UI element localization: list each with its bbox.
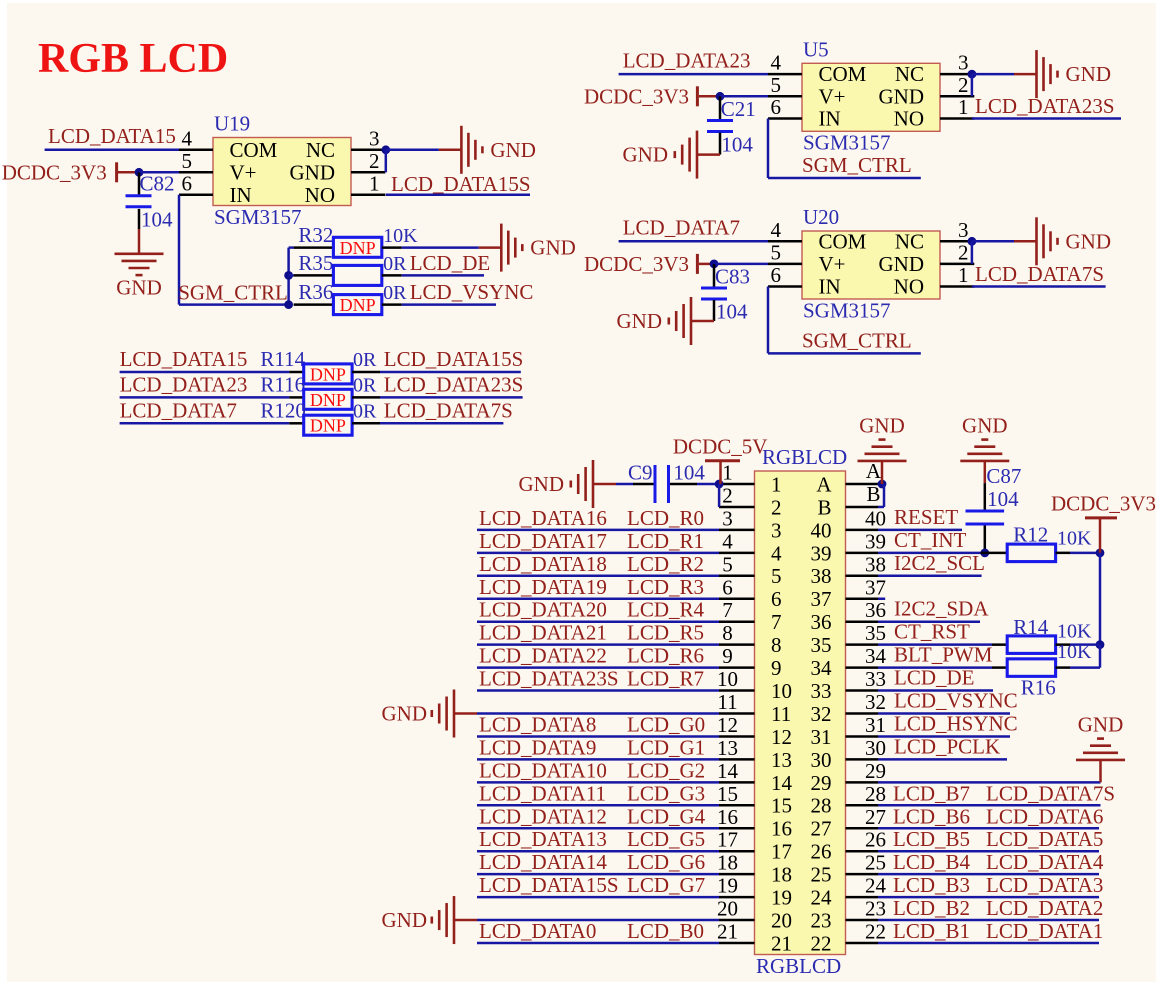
- svg-text:V+: V+: [819, 84, 846, 108]
- node junction C9/DCDC_5V/pin1: [715, 480, 724, 489]
- svg-text:DNP: DNP: [310, 416, 346, 436]
- svg-text:LCD_DATA15S: LCD_DATA15S: [479, 873, 619, 897]
- svg-text:V+: V+: [230, 160, 257, 184]
- svg-text:1: 1: [722, 461, 733, 485]
- wire U19 pin1 LCD_DATA15S: [386, 194, 530, 197]
- node junction DCDC_3V3/C21: [716, 92, 725, 101]
- wire pin 33 net: [878, 689, 993, 692]
- wire SGM_CTRL (U5): [768, 177, 921, 180]
- svg-text:22: 22: [811, 931, 832, 955]
- svg-text:6: 6: [771, 263, 782, 287]
- svg-text:LCD_DATA7S: LCD_DATA7S: [384, 398, 513, 422]
- node junction R14/bus: [1096, 640, 1105, 649]
- svg-text:13: 13: [771, 748, 792, 772]
- op-amp U19 (SGM3157 analog switch body): [213, 138, 351, 206]
- svg-text:10: 10: [717, 667, 738, 691]
- wire R36 right: [382, 303, 402, 306]
- svg-text:35: 35: [865, 621, 886, 645]
- svg-text:V+: V+: [819, 252, 846, 276]
- svg-text:GND: GND: [530, 236, 576, 260]
- svg-text:LCD_DATA17: LCD_DATA17: [479, 529, 607, 553]
- svg-text:40: 40: [865, 506, 886, 530]
- connector pin 20 stub (left): [719, 919, 755, 922]
- svg-text:A: A: [866, 459, 882, 483]
- wire LCD_DATA9 to pin 13: [477, 758, 719, 761]
- wire LCD_DATA22 to pin 9: [477, 666, 719, 669]
- svg-text:12: 12: [771, 725, 792, 749]
- U5 pin 3 stub: [940, 73, 974, 76]
- svg-text:LCD_DATA2: LCD_DATA2: [986, 896, 1103, 920]
- svg-text:6: 6: [771, 587, 782, 611]
- svg-text:LCD_G2: LCD_G2: [627, 758, 705, 782]
- svg-text:11: 11: [771, 702, 791, 726]
- svg-text:37: 37: [865, 575, 886, 599]
- svg-text:R36: R36: [298, 280, 333, 304]
- svg-text:CT_INT: CT_INT: [894, 528, 966, 552]
- U19 pin 5 stub: [179, 171, 213, 174]
- wire LCD_DATA20 to pin 7: [477, 620, 719, 623]
- svg-text:C21: C21: [721, 97, 756, 121]
- wire U20 pin2 up: [971, 241, 974, 264]
- connector pin 35 stub (right): [846, 643, 879, 646]
- connector pin 24 stub (right): [846, 896, 879, 899]
- connector pin 31 stub (right): [846, 735, 879, 738]
- svg-text:LCD_DATA4: LCD_DATA4: [986, 850, 1104, 874]
- svg-text:1: 1: [958, 95, 969, 119]
- svg-text:COM: COM: [819, 62, 867, 86]
- svg-text:26: 26: [811, 840, 832, 864]
- wire U19 pin3 node to GND: [386, 149, 439, 152]
- svg-text:3: 3: [722, 506, 733, 530]
- svg-text:LCD_B0: LCD_B0: [627, 919, 704, 943]
- svg-text:LCD_DATA15: LCD_DATA15: [48, 124, 176, 148]
- wire GND stem (A/B): [881, 461, 884, 484]
- svg-text:10K: 10K: [1057, 528, 1092, 550]
- wire 3V3 bus down: [1099, 553, 1102, 645]
- U19 pin 1 stub: [351, 194, 385, 197]
- svg-text:LCD_DATA14: LCD_DATA14: [479, 850, 607, 874]
- connector pin 25 stub (right): [846, 873, 879, 876]
- wire LCD_DATA15S right: [352, 371, 380, 374]
- svg-text:34: 34: [811, 656, 833, 680]
- U19 pin 3 stub: [351, 149, 385, 152]
- capacitor C87 plates: [966, 510, 1005, 513]
- svg-text:LCD_DATA23S: LCD_DATA23S: [384, 372, 524, 396]
- svg-text:10: 10: [771, 679, 792, 703]
- wire pin 23 LCD_DATA2: [878, 919, 1099, 922]
- U5 pin 6 stub: [768, 117, 802, 120]
- wire GND stem (pin 29): [1099, 760, 1102, 782]
- svg-text:10K: 10K: [383, 225, 418, 247]
- svg-text:39: 39: [865, 529, 886, 553]
- svg-text:DCDC_3V3: DCDC_3V3: [2, 160, 107, 184]
- svg-text:28: 28: [865, 782, 886, 806]
- connector pin 27 stub (right): [846, 827, 879, 830]
- wire R32 right: [382, 246, 402, 249]
- capacitor C21 plates: [707, 119, 733, 122]
- svg-text:LCD_DATA7S: LCD_DATA7S: [975, 262, 1104, 286]
- svg-text:GND: GND: [879, 252, 925, 276]
- connector pin 29 stub (right): [846, 781, 879, 784]
- op-amp U5 (SGM3157 analog switch body): [802, 63, 940, 131]
- wire LCD_DATA14 to pin 18: [477, 873, 719, 876]
- wire BLT_PWM to R16: [878, 666, 992, 669]
- svg-text:U20: U20: [803, 205, 839, 229]
- wire C21 top: [719, 96, 722, 121]
- U5 pin 5 stub: [768, 95, 802, 98]
- power DCDC_5V: [705, 459, 740, 462]
- svg-text:5: 5: [771, 73, 782, 97]
- svg-text:10K: 10K: [1057, 621, 1092, 643]
- wire pin A to GND node: [878, 483, 883, 486]
- ground GND at U20 pin3: [1014, 240, 1037, 243]
- svg-text:3: 3: [958, 51, 969, 75]
- svg-text:DCDC_3V3: DCDC_3V3: [1051, 491, 1156, 515]
- U20 pin 5 stub: [768, 263, 802, 266]
- svg-text:LCD_DATA15: LCD_DATA15: [120, 347, 248, 371]
- svg-text:30: 30: [811, 748, 832, 772]
- svg-text:LCD_G5: LCD_G5: [627, 827, 705, 851]
- connector pin 32 stub (right): [846, 712, 879, 715]
- wire C21 bottom: [719, 133, 722, 155]
- svg-text:LCD_DATA11: LCD_DATA11: [479, 781, 606, 805]
- svg-text:LCD_B6: LCD_B6: [893, 804, 970, 828]
- svg-text:LCD_G7: LCD_G7: [627, 873, 705, 897]
- svg-text:B: B: [817, 495, 831, 519]
- wire LCD_DATA7S right: [352, 422, 380, 425]
- svg-text:LCD_DATA7: LCD_DATA7: [623, 216, 740, 240]
- svg-text:DCDC_3V3: DCDC_3V3: [584, 84, 689, 108]
- svg-text:0R: 0R: [353, 349, 377, 371]
- svg-text:LCD_R5: LCD_R5: [627, 621, 704, 645]
- wire pin 28 LCD_DATA7S: [878, 804, 1101, 807]
- U5 pin 2 stub: [940, 95, 974, 98]
- svg-text:NC: NC: [306, 138, 335, 162]
- svg-text:IN: IN: [819, 107, 841, 131]
- wire LCD_DATA21 to pin 8: [477, 643, 719, 646]
- wire LCD_DATA17 to pin 4: [477, 552, 719, 555]
- svg-text:LCD_DATA19: LCD_DATA19: [479, 575, 607, 599]
- svg-text:23: 23: [811, 908, 832, 932]
- ground GND above C87: [960, 460, 1009, 463]
- svg-text:LCD_R7: LCD_R7: [627, 667, 704, 691]
- svg-text:9: 9: [722, 644, 733, 668]
- svg-text:1: 1: [958, 263, 969, 287]
- wire pin 26 LCD_DATA5: [878, 850, 1099, 853]
- svg-text:38: 38: [865, 552, 886, 576]
- svg-text:0R: 0R: [383, 253, 407, 275]
- U19 pin 4 stub: [179, 149, 213, 152]
- svg-text:5: 5: [771, 564, 782, 588]
- svg-text:DNP: DNP: [310, 364, 346, 384]
- svg-text:4: 4: [182, 126, 193, 150]
- wire GND to pin 20: [477, 919, 719, 922]
- svg-text:LCD_DATA23S: LCD_DATA23S: [479, 667, 619, 691]
- svg-text:2: 2: [369, 149, 380, 173]
- svg-text:5: 5: [182, 149, 193, 173]
- resistor R12: [1007, 544, 1055, 562]
- wire pin 37 net: [878, 598, 885, 601]
- svg-text:1: 1: [369, 171, 380, 195]
- svg-text:33: 33: [811, 679, 832, 703]
- wire LCD_DATA0 to pin 21: [477, 942, 719, 945]
- connector pin 26 stub (right): [846, 850, 879, 853]
- svg-text:IN: IN: [819, 275, 841, 299]
- node junction R12/DCDC_3V3: [1096, 548, 1105, 557]
- ground GND at connector pin 11: [454, 712, 477, 715]
- power DCDC_3V3 bar (U5): [696, 86, 699, 106]
- U19 pin 2 stub: [351, 171, 385, 174]
- svg-text:CT_RST: CT_RST: [894, 620, 970, 644]
- svg-text:RGB LCD: RGB LCD: [38, 36, 228, 82]
- svg-text:R32: R32: [298, 223, 333, 247]
- svg-text:RESET: RESET: [894, 505, 958, 529]
- ground GND below C82: [115, 253, 164, 256]
- wire U19 pin2 up to pin3 node: [385, 150, 388, 173]
- svg-text:24: 24: [811, 886, 833, 910]
- resistor R14: [1007, 636, 1055, 654]
- svg-text:C9: C9: [628, 460, 653, 484]
- wire pin 24 LCD_DATA3: [878, 896, 1099, 899]
- svg-text:7: 7: [771, 610, 782, 634]
- resistor R32 (DNP): [333, 237, 381, 257]
- svg-text:LCD_DATA23: LCD_DATA23: [120, 372, 248, 396]
- wire junction to U19 pin5: [139, 171, 179, 174]
- svg-text:11: 11: [717, 690, 737, 714]
- svg-text:34: 34: [865, 644, 887, 668]
- svg-text:10K: 10K: [1057, 641, 1092, 663]
- svg-text:LCD_DATA7: LCD_DATA7: [120, 398, 237, 422]
- connector pin 16 stub (left): [719, 827, 755, 830]
- wire R16 right: [1056, 666, 1071, 669]
- svg-text:IN: IN: [230, 183, 252, 207]
- node junction U20 pin3/pin2: [968, 237, 977, 246]
- svg-text:DCDC_5V: DCDC_5V: [673, 434, 768, 458]
- svg-text:DCDC_3V3: DCDC_3V3: [584, 252, 689, 276]
- svg-text:12: 12: [717, 713, 738, 737]
- svg-text:16: 16: [771, 817, 792, 841]
- connector pin 6 stub (left): [719, 598, 755, 601]
- wire junction down to pin2: [718, 484, 721, 507]
- svg-text:C83: C83: [715, 265, 750, 289]
- connector pin A stub (right): [846, 483, 879, 486]
- wire C82 bottom: [138, 209, 141, 229]
- wire CT_INT to C87 node: [878, 552, 981, 555]
- node junction at R35: [284, 271, 293, 280]
- svg-text:GND: GND: [962, 413, 1008, 437]
- svg-text:21: 21: [717, 920, 738, 944]
- connector RGBLCD body: [755, 471, 846, 955]
- svg-text:LCD_DATA18: LCD_DATA18: [479, 552, 607, 576]
- svg-text:NO: NO: [894, 275, 924, 299]
- svg-text:I2C2_SCL: I2C2_SCL: [894, 551, 985, 575]
- svg-text:LCD_DATA9: LCD_DATA9: [479, 735, 596, 759]
- connector pin 10 stub (left): [719, 689, 755, 692]
- svg-text:LCD_DATA8: LCD_DATA8: [479, 712, 596, 736]
- wire pin B up to A node: [878, 506, 884, 509]
- svg-text:GND: GND: [116, 276, 162, 300]
- svg-text:14: 14: [717, 759, 739, 783]
- svg-text:LCD_VSYNC: LCD_VSYNC: [410, 280, 534, 304]
- svg-text:NC: NC: [895, 62, 924, 86]
- svg-text:LCD_G1: LCD_G1: [627, 735, 705, 759]
- power DCDC_3V3 (right): [1085, 516, 1117, 519]
- wire LCD_DATA19 to pin 6: [477, 598, 719, 601]
- svg-text:A: A: [816, 472, 832, 496]
- U20 pin 3 stub: [940, 240, 974, 243]
- svg-text:21: 21: [771, 931, 792, 955]
- svg-text:0R: 0R: [353, 400, 377, 422]
- svg-text:DNP: DNP: [310, 390, 346, 410]
- svg-text:36: 36: [811, 610, 832, 634]
- wire pin 22 LCD_DATA1: [878, 942, 1099, 945]
- svg-text:GND: GND: [1066, 229, 1112, 253]
- svg-text:13: 13: [717, 736, 738, 760]
- svg-text:LCD_DATA23S: LCD_DATA23S: [975, 94, 1115, 118]
- wire junction to U20 pin5: [714, 263, 768, 266]
- connector pin B stub (right): [846, 506, 879, 509]
- svg-text:LCD_DATA12: LCD_DATA12: [479, 804, 607, 828]
- svg-text:17: 17: [771, 840, 792, 864]
- svg-text:LCD_B1: LCD_B1: [893, 919, 970, 943]
- ground GND at connector pin 20: [454, 919, 477, 922]
- svg-text:104: 104: [141, 208, 173, 232]
- wire pin 36 net: [878, 620, 980, 623]
- svg-text:8: 8: [771, 633, 782, 657]
- svg-text:GND: GND: [623, 143, 669, 167]
- wire R12 right: [1056, 552, 1071, 555]
- connector pin 28 stub (right): [846, 804, 879, 807]
- svg-text:SGM3157: SGM3157: [803, 131, 891, 155]
- connector pin 21 stub (left): [719, 942, 755, 945]
- svg-text:104: 104: [721, 133, 753, 157]
- wire LCD_DATA7 left: [120, 422, 290, 425]
- connector pin 23 stub (right): [846, 919, 879, 922]
- wire C83 bottom: [713, 300, 716, 321]
- svg-text:LCD_G4: LCD_G4: [627, 804, 706, 828]
- svg-text:GND: GND: [859, 413, 905, 437]
- svg-text:LCD_HSYNC: LCD_HSYNC: [894, 711, 1018, 735]
- svg-text:GND: GND: [290, 160, 336, 184]
- wire C87 bottom: [984, 526, 987, 553]
- svg-text:4: 4: [771, 51, 782, 75]
- svg-text:40: 40: [811, 518, 832, 542]
- wire R35 left: [289, 274, 294, 277]
- connector pin 34 stub (right): [846, 666, 879, 669]
- svg-text:36: 36: [865, 598, 886, 622]
- wire R35 right: [382, 274, 402, 277]
- wire LCD_DATA23 left: [120, 396, 290, 399]
- svg-text:LCD_DATA15S: LCD_DATA15S: [391, 172, 531, 196]
- wire U5 IN down: [767, 119, 770, 179]
- wire LCD_DATA7 to U20 pin4: [619, 240, 768, 243]
- svg-text:32: 32: [811, 702, 832, 726]
- wire U5 pin1 LCD_DATA23S: [972, 117, 1121, 120]
- svg-text:LCD_R4: LCD_R4: [627, 598, 705, 622]
- svg-text:3: 3: [369, 126, 380, 150]
- svg-text:LCD_B2: LCD_B2: [893, 896, 970, 920]
- resistor R35: [333, 265, 381, 285]
- node junction at R36: [284, 300, 293, 309]
- U20 pin 1 stub: [940, 285, 974, 288]
- svg-text:LCD_DATA5: LCD_DATA5: [986, 827, 1103, 851]
- svg-text:LCD_R6: LCD_R6: [627, 644, 704, 668]
- svg-text:14: 14: [771, 771, 793, 795]
- svg-text:GND: GND: [519, 472, 565, 496]
- svg-text:16: 16: [717, 805, 738, 829]
- connector pin 7 stub (left): [719, 620, 755, 623]
- svg-text:38: 38: [811, 564, 832, 588]
- wire LCD_DATA13 to pin 17: [477, 850, 719, 853]
- svg-text:SGM3157: SGM3157: [214, 205, 302, 229]
- connector pin 14 stub (left): [719, 781, 755, 784]
- ground GND at C21: [697, 153, 720, 156]
- wire LCD_DATA12 to pin 16: [477, 827, 719, 830]
- resistor R114 (DNP): [304, 364, 352, 384]
- connector pin 40 stub (right): [846, 529, 879, 532]
- svg-text:7: 7: [722, 598, 733, 622]
- connector pin 22 stub (right): [846, 942, 879, 945]
- wire LCD_DATA23S to pin 10: [477, 689, 719, 692]
- svg-text:20: 20: [717, 897, 738, 921]
- wire LCD_DATA15 left: [120, 371, 290, 374]
- svg-text:104: 104: [987, 487, 1019, 511]
- svg-text:LCD_DATA6: LCD_DATA6: [986, 804, 1103, 828]
- svg-text:LCD_DATA13: LCD_DATA13: [479, 827, 607, 851]
- svg-text:17: 17: [717, 828, 738, 852]
- ground GND at C9: [593, 483, 616, 486]
- svg-text:R114: R114: [260, 347, 305, 371]
- wire bus to R16: [1099, 645, 1102, 668]
- svg-text:GND: GND: [879, 84, 925, 108]
- svg-text:LCD_G0: LCD_G0: [627, 712, 705, 736]
- U5 pin 1 stub: [940, 117, 974, 120]
- svg-text:SGM_CTRL: SGM_CTRL: [802, 153, 912, 177]
- svg-text:U19: U19: [214, 112, 250, 136]
- svg-text:18: 18: [717, 851, 738, 875]
- U20 pin 4 stub: [768, 240, 802, 243]
- connector pin 36 stub (right): [846, 620, 879, 623]
- wire junction to U5 pin5: [720, 95, 768, 98]
- svg-text:LCD_G6: LCD_G6: [627, 850, 705, 874]
- svg-text:LCD_R1: LCD_R1: [627, 529, 704, 553]
- capacitor C83 plates: [701, 287, 727, 290]
- wire SGM_CTRL (U19): [179, 303, 289, 306]
- svg-text:6: 6: [182, 171, 193, 195]
- svg-text:35: 35: [811, 633, 832, 657]
- resistor R36 (DNP): [333, 295, 381, 315]
- svg-text:LCD_DE: LCD_DE: [410, 251, 491, 275]
- connector pin 11 stub (left): [719, 712, 755, 715]
- svg-text:LCD_DATA15S: LCD_DATA15S: [384, 347, 524, 371]
- wire LCD_DATA10 to pin 14: [477, 781, 719, 784]
- capacitor C82 plates: [126, 194, 152, 197]
- svg-text:32: 32: [865, 690, 886, 714]
- svg-text:DNP: DNP: [340, 238, 376, 258]
- wire pin 40 net: [878, 529, 962, 532]
- svg-text:LCD_DATA10: LCD_DATA10: [479, 758, 607, 782]
- svg-text:SGM3157: SGM3157: [803, 298, 891, 322]
- wire C87 top: [984, 461, 987, 483]
- wire R14 right: [1056, 643, 1071, 646]
- wire GND to C9: [616, 483, 633, 486]
- svg-text:NO: NO: [894, 107, 924, 131]
- svg-text:25: 25: [865, 851, 886, 875]
- svg-text:15: 15: [771, 794, 792, 818]
- wire LCD_DATA8 to pin 12: [477, 735, 719, 738]
- ground GND above pin A: [858, 460, 907, 463]
- svg-text:30: 30: [865, 736, 886, 760]
